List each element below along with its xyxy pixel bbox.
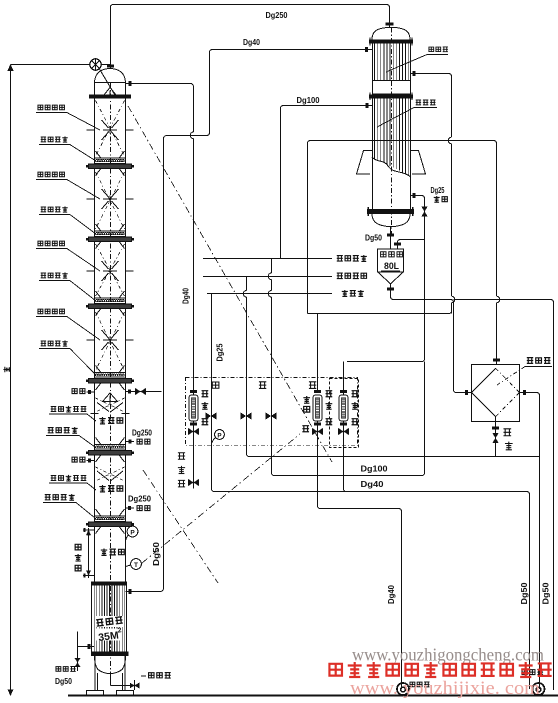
reflux spray nozzle	[104, 88, 117, 99]
sampling port with valve	[178, 453, 199, 488]
label redistributor (S5)	[46, 427, 95, 447]
construction line B	[142, 434, 300, 563]
reboiler bottom head	[95, 656, 126, 674]
blowdown pipe with valve	[111, 673, 171, 690]
svg-text:T: T	[134, 562, 138, 569]
drain funnel left	[397, 682, 430, 695]
label wire-mesh packing 2	[36, 172, 100, 199]
pipe Dg250 column top to heat exchanger	[107, 5, 394, 69]
exchanger top flange	[369, 38, 413, 46]
shell joint notches S5	[91, 413, 130, 415]
svg-text:Dg250: Dg250	[132, 428, 152, 438]
svg-text:Dg50: Dg50	[541, 582, 551, 604]
ground line	[68, 695, 558, 697]
construction line A	[128, 106, 332, 462]
liquid redistributor 2	[86, 224, 134, 249]
svg-text:Dg100: Dg100	[297, 95, 320, 105]
exchanger support brackets	[357, 151, 426, 175]
liquid redistributor 3	[86, 291, 134, 316]
cooling water branch pipes	[243, 259, 271, 473]
buffer tank outlet to cooler	[387, 284, 554, 690]
collector header Dg40	[212, 479, 530, 689]
label Dg250 / handhole right (S5)	[126, 428, 153, 445]
reboiler label 35 m2	[96, 616, 126, 644]
liquid redistributor 4	[86, 366, 134, 391]
wire-mesh packing section 2	[87, 172, 134, 229]
cooler right pipe to Dg50 drop	[520, 390, 540, 689]
pall ring packing S6	[96, 467, 125, 481]
flow meter 2	[312, 390, 332, 435]
cooler product outlet with valve	[492, 417, 513, 457]
control valves in operation box	[206, 412, 277, 419]
wire-mesh packing section 4	[87, 312, 134, 371]
pall ring packing S5	[96, 398, 125, 412]
liquid redistributor 1	[86, 151, 134, 176]
flow meter 1	[188, 390, 208, 435]
exchanger right nozzle to down pipe	[411, 71, 455, 313]
condenser tube bundle (lower, broken view)	[372, 98, 410, 176]
drain funnel right	[522, 670, 544, 695]
label redistributor (S6)	[43, 494, 95, 518]
collector header Dg100	[272, 362, 425, 476]
label wire-mesh packing 4	[36, 309, 100, 340]
steam in line	[207, 290, 364, 297]
label cooler	[497, 358, 552, 385]
steam branch pipe Dg25	[212, 294, 225, 489]
label redistributor 4	[39, 340, 96, 375]
pipe Dg40 to exchanger upper-left nozzle	[126, 47, 373, 594]
operation area dashed box	[186, 378, 359, 448]
drain header to Dg40 drop pipe	[318, 421, 402, 689]
flow meter 3	[343, 362, 345, 489]
exchanger bottom head	[372, 214, 410, 227]
reboiler top tubesheet	[91, 582, 127, 586]
label pall-ring packing (S5)	[49, 406, 96, 421]
construction line C	[143, 470, 218, 583]
label pall-ring packing (S6)	[49, 475, 96, 490]
text holdup section	[101, 548, 124, 555]
svg-text:Dg250: Dg250	[266, 10, 288, 20]
label redistributor 3	[39, 272, 96, 301]
svg-text:Dg250: Dg250	[128, 494, 151, 504]
cooling water inlet piping with valve	[55, 632, 95, 687]
svg-text:Dg50: Dg50	[519, 582, 529, 604]
text demister section (S6)	[99, 485, 122, 492]
collector header 1	[247, 454, 540, 457]
svg-text:Dg40: Dg40	[386, 585, 396, 604]
branch into buffer tank	[394, 240, 425, 250]
watermark company name (red)	[329, 662, 551, 677]
label condenser	[377, 100, 437, 127]
svg-text:Dg40: Dg40	[243, 37, 260, 47]
label wire-mesh packing 1	[36, 105, 100, 130]
cooling water in line	[203, 273, 367, 278]
svg-text:P: P	[130, 529, 135, 536]
exchanger left Dg100 nozzle line	[281, 103, 373, 258]
pipe across to cooler (top feed)	[308, 141, 501, 365]
distillation column shell	[95, 69, 126, 674]
pressure gauge in box	[213, 430, 225, 443]
svg-text:Dg100: Dg100	[361, 464, 388, 474]
exchanger tube bundle (upper)	[373, 44, 411, 94]
label wire-mesh packing 3	[36, 241, 100, 271]
label heat exchanger	[386, 47, 448, 72]
redistributor 5	[86, 438, 134, 463]
svg-text:Dg50: Dg50	[55, 677, 72, 686]
heat exchanger shell	[372, 27, 411, 236]
level gauge	[83, 528, 95, 578]
svg-text:www. youzhijixie. com: www. youzhijixie. com	[350, 678, 540, 699]
vent cap (circle-cross) on column top	[90, 59, 117, 99]
svg-text:Dg40: Dg40	[361, 479, 384, 489]
redistributor 6	[86, 509, 134, 534]
buffer tank 80L	[378, 249, 404, 284]
svg-text:Dg25: Dg25	[215, 343, 225, 361]
pipe to flow meter 2	[308, 311, 452, 392]
cooling water out line	[203, 255, 367, 262]
label redistributor 2	[39, 206, 96, 234]
text operation area	[212, 382, 316, 389]
text demister section (S5)	[99, 417, 122, 424]
reboiler shell and tubes	[92, 586, 127, 652]
wire-mesh packing section 1	[87, 101, 134, 157]
temperature gauge T on shell	[126, 559, 142, 570]
label Dg50 right pipes (rotated)	[519, 582, 551, 604]
condensate outlet pipe Dg50	[365, 227, 394, 249]
text temperature-measuring zone (vertical)	[302, 396, 310, 432]
svg-text:Dg25: Dg25	[431, 185, 445, 195]
wire-mesh packing section 3	[87, 244, 134, 296]
column top nozzle pipe (to feed line)	[126, 81, 194, 488]
spray nozzle section5	[103, 393, 118, 404]
svg-text:35M: 35M	[98, 630, 120, 644]
svg-text:Dg40: Dg40	[181, 288, 191, 304]
exchanger bottom flange	[367, 207, 414, 216]
reboiler support legs	[87, 656, 134, 696]
label redistributor 1	[39, 136, 96, 161]
dimension line (overall height)	[3, 65, 110, 696]
exchanger mid flange	[369, 93, 413, 101]
svg-text:www.youzhigongcheng.com: www.youzhigongcheng.com	[352, 645, 544, 665]
handhole (upper) left	[72, 389, 94, 394]
label Dg250 / handhole right (S6)	[126, 494, 152, 511]
top flange	[89, 95, 131, 99]
label level gauge (vertical)	[75, 544, 82, 571]
pressure gauge P on shell	[126, 526, 138, 540]
svg-text:P: P	[217, 432, 221, 439]
handhole (lower) left	[72, 457, 94, 462]
svg-text:Dg50: Dg50	[151, 542, 161, 566]
vent line Dg25 with valve	[347, 185, 447, 362]
svg-text:80L: 80L	[384, 261, 399, 271]
svg-text:Dg50: Dg50	[365, 233, 382, 243]
reboiler bottom tubesheet	[91, 652, 129, 656]
product cooler	[472, 364, 520, 421]
feed pipe into column with valve	[126, 388, 162, 395]
